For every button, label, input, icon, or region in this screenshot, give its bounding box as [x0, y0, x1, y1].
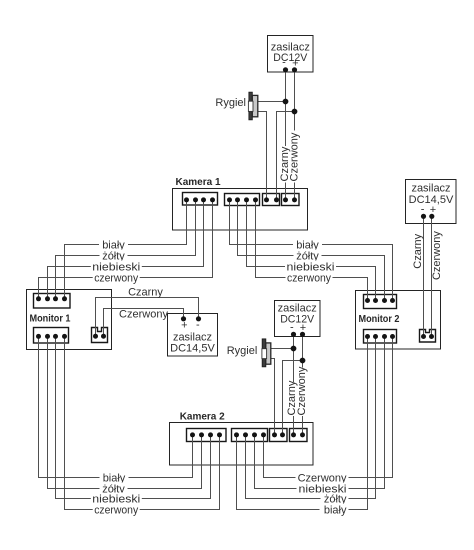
Kamera 2 terminal block TB4 [290, 429, 308, 442]
Kamera1 TB3 pins [264, 197, 279, 202]
svg-text:biały: biały [324, 504, 347, 516]
wire Monitor2 bottom pin1 to Kamera2 TB2 pin1 (bialy) [237, 337, 368, 510]
Monitor 2 outer box [356, 291, 441, 350]
wire strike1 top contact to minus wire [258, 101, 286, 103]
Kamera2 TB1 pins [190, 432, 222, 437]
Kamera2 TB4 pins [291, 432, 305, 437]
wire strike2 bottom contact to Kamera2 TB3 pin1 [271, 359, 275, 436]
junction node on minus wire (strike 2) [291, 346, 297, 352]
label zolty upper left [100, 250, 128, 263]
label zolty lower right [321, 493, 349, 506]
Kamera 1 terminal block TB4 [282, 194, 300, 206]
svg-text:Rygiel: Rygiel [215, 97, 246, 109]
wire Monitor1 bottom pin3 to Kamera2 TB1 pin3 (niebieski) [56, 337, 211, 499]
svg-text:Czerwony: Czerwony [289, 132, 301, 181]
electric strike 1 slot [248, 101, 253, 111]
svg-text:-: - [421, 203, 425, 215]
wire Monitor1 power pin2 to PS3 plus (Czerwony) [104, 309, 184, 337]
svg-text:DC12V: DC12V [280, 314, 315, 326]
electric strike 2 body [266, 343, 271, 364]
label bialy lower left [100, 472, 129, 485]
svg-text:czerwony: czerwony [287, 272, 331, 284]
wire PS2 plus down to Monitor2 power pin2 (Czerwony) [431, 217, 433, 337]
Kamera 1 terminal block TB3 [263, 194, 280, 206]
Kamera 1 terminal block TB1 [183, 193, 218, 206]
Kamera 1 outer box [173, 189, 308, 231]
label zolty upper right [294, 250, 322, 263]
svg-text:Rygiel: Rygiel [227, 345, 258, 357]
wire plus branch to Kamera2 TB3 pin2 [283, 361, 303, 436]
Kamera2 TB3 pins [272, 432, 285, 437]
Kamera 2 outer box [170, 423, 314, 466]
wire Kamera1 TB1 pin3 to Monitor1 top pin2 (niebieski) [48, 200, 204, 299]
wire Monitor1 bottom pin1 to Kamera2 TB1 pin1 (bialy) [39, 337, 193, 478]
power supply PS2 box (zasilacz DC14,5V, top right) [406, 180, 457, 224]
PS4 terminal dots [291, 332, 296, 337]
wire Kamera1 TB2 pin1 to Monitor2 top pin4 (bialy) [230, 200, 393, 301]
svg-text:zasilacz: zasilacz [278, 302, 317, 314]
label czerwony upper left [93, 272, 140, 285]
wire Monitor2 bottom pin3 to Kamera2 TB2 pin3 (niebieski) [255, 337, 385, 489]
label niebieski lower left [91, 493, 142, 506]
Monitor1 bottom block pins [36, 334, 67, 339]
PS1 terminal dots [283, 67, 288, 72]
electric strike 2 slot [262, 349, 267, 359]
wire strike1 bottom contact to Kamera1 TB3 pin1 [258, 112, 267, 201]
wire Kamera1 TB1 pin2 to Monitor1 top pin3 (zolty) [56, 200, 196, 299]
Monitor 1 terminal block top [34, 294, 71, 309]
wire PS1 minus down to Kamera1 TB4 pin1 [285, 70, 287, 200]
svg-text:Czarny: Czarny [128, 286, 163, 298]
wire PS2 minus down to Monitor2 power pin1 (Czarny) [423, 217, 425, 337]
svg-text:-: - [290, 321, 294, 333]
wire Kamera1 TB2 pin2 to Monitor2 top pin3 (zolty) [238, 200, 385, 301]
svg-text:Monitor 1: Monitor 1 [30, 314, 71, 325]
power supply PS3 box (zasilacz DC14,5V, middle left) [168, 314, 218, 357]
Monitor 2 terminal block bottom [364, 330, 397, 344]
wire Kamera1 TB2 pin3 to Monitor2 top pin2 (niebieski) [247, 200, 376, 301]
label Czerwony lower right [296, 472, 349, 485]
Monitor2 top block pins [365, 298, 395, 303]
electric strike 2 (Rygiel) plate [262, 339, 266, 367]
label czerwony upper right [286, 272, 333, 285]
Monitor1 top block pins [36, 296, 67, 301]
svg-text:Czarny: Czarny [412, 233, 424, 268]
svg-text:Kamera 2: Kamera 2 [180, 412, 225, 423]
wire Monitor1 power pin1 to PS3 minus (Czarny) [96, 298, 199, 337]
Monitor 2 terminal block top [364, 295, 397, 309]
svg-text:czerwony: czerwony [94, 272, 138, 284]
power supply PS4 box (zasilacz DC12V, middle) [275, 301, 321, 337]
label Czarny vertical (middle pair) [286, 380, 298, 416]
Kamera1 TB4 pins [283, 197, 297, 202]
wire Monitor1 bottom pin2 to Kamera2 TB1 pin2 (zolty) [48, 337, 202, 489]
wire PS4 minus down to Kamera2 TB4 pin1 [293, 335, 295, 436]
wire Monitor2 bottom pin4 to Kamera2 TB2 pin4 (Czerwony) [264, 337, 393, 478]
svg-text:czerwony: czerwony [94, 504, 138, 516]
wire plus branch to Kamera1 TB3 pin2 [277, 112, 295, 201]
label Czerwony vertical (middle pair) [296, 366, 308, 416]
svg-text:Czerwony: Czerwony [119, 308, 168, 320]
electric strike 1 body [252, 95, 257, 116]
junction node on plus wire (strike 1) [292, 109, 298, 115]
PS3 terminal dots [181, 316, 186, 321]
wire strike2 top contact to minus wire [271, 348, 294, 350]
junction node on minus wire (strike 1) [283, 99, 289, 105]
label zolty lower left [100, 483, 128, 496]
svg-text:DC14,5V: DC14,5V [170, 342, 215, 354]
Kamera1 TB1 pins [184, 197, 215, 202]
wire Kamera1 TB2 pin4 to Monitor2 top pin1 (czerwony) [256, 200, 368, 301]
label niebieski upper left [91, 261, 142, 274]
Monitor 1 power terminal block (notched) [92, 328, 108, 343]
svg-text:Kamera 1: Kamera 1 [176, 177, 221, 188]
label bialy lower right [320, 504, 349, 517]
Monitor2 bottom block pins [365, 334, 395, 339]
label niebieski lower right [297, 483, 349, 496]
wire Monitor1 bottom pin4 to Kamera2 TB1 pin4 (czerwony) [65, 337, 220, 510]
wire PS1 plus down to Kamera1 TB4 pin2 [294, 70, 296, 200]
PS2 terminal dots [421, 214, 426, 219]
Monitor 1 terminal block bottom [34, 328, 69, 344]
Kamera 1 terminal block TB2 [225, 194, 260, 206]
wire Monitor2 bottom pin2 to Kamera2 TB2 pin2 (zolty) [246, 337, 376, 499]
Kamera1 TB2 pins [227, 197, 258, 202]
label Czerwony vertical (top pair) [289, 131, 301, 183]
svg-text:Czerwony: Czerwony [431, 231, 443, 280]
svg-text:Monitor 2: Monitor 2 [359, 314, 400, 325]
svg-text:DC12V: DC12V [273, 52, 308, 64]
wire Kamera1 TB1 pin4 to Monitor1 top pin1 (czerwony) [39, 200, 213, 299]
Monitor 2 power terminal block (notched) [420, 330, 436, 343]
Kamera 2 terminal block TB1 [187, 429, 227, 442]
label Czarny vertical (top pair) [279, 146, 291, 183]
power supply PS1 box (zasilacz DC12V, top) [268, 36, 314, 73]
label niebieski upper right [285, 261, 336, 274]
wire Kamera1 TB1 pin1 to Monitor1 top pin4 (bialy) [65, 200, 187, 299]
electric strike 1 (Rygiel) plate [249, 92, 252, 120]
svg-text:-: - [282, 57, 286, 69]
junction node on plus wire (strike 2) [300, 358, 306, 364]
wire PS4 plus down to Kamera2 TB4 pin2 [302, 335, 304, 436]
Monitor 1 outer box [27, 290, 112, 350]
Monitor2 power block pins [421, 334, 434, 339]
svg-text:Czerwony: Czerwony [296, 366, 308, 415]
label czerwony lower left [93, 504, 140, 517]
svg-text:zasilacz: zasilacz [411, 182, 450, 194]
Kamera 2 terminal block TB2 [232, 429, 268, 442]
label bialy upper left [99, 239, 128, 252]
label bialy upper right [293, 239, 322, 252]
Monitor1 power block pins [93, 334, 106, 339]
Kamera 2 terminal block TB3 [270, 429, 288, 442]
Kamera2 TB2 pins [234, 432, 266, 437]
